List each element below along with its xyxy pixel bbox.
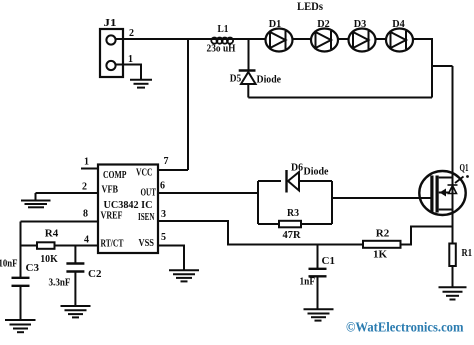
wire bottom loop rail bbox=[248, 97, 432, 99]
ground VFB bbox=[21, 193, 51, 207]
wire D6 branch left bbox=[258, 180, 281, 182]
resistor R1 bbox=[449, 244, 456, 267]
wire J1 pin1 to ground bbox=[115, 65, 141, 80]
svg-text:47R: 47R bbox=[283, 229, 302, 241]
svg-text:R2: R2 bbox=[376, 228, 390, 240]
svg-text:C1: C1 bbox=[322, 255, 335, 267]
snubber block right vertical wire bbox=[331, 181, 333, 224]
wire R2 to Q1 source node bbox=[401, 227, 453, 245]
svg-text:D3: D3 bbox=[354, 18, 367, 30]
capacitor C3 bbox=[12, 278, 30, 320]
wire R3 branch right bbox=[301, 223, 332, 225]
resistor R4 bbox=[37, 242, 55, 249]
ground R1 bbox=[439, 287, 467, 299]
inductor L1 bbox=[211, 38, 233, 44]
resistor R2 bbox=[363, 241, 401, 248]
svg-text:8: 8 bbox=[83, 209, 88, 220]
svg-text:3: 3 bbox=[161, 209, 166, 220]
wire D1 to D2 bbox=[293, 38, 312, 40]
wire pin5 VSS bbox=[158, 246, 184, 271]
wire pin1 COMP stub bbox=[81, 168, 98, 170]
svg-text:D4: D4 bbox=[392, 18, 405, 30]
wire gate bbox=[332, 197, 431, 199]
svg-text:3.3nF: 3.3nF bbox=[49, 276, 71, 288]
svg-text:R4: R4 bbox=[45, 228, 59, 240]
svg-text:Q1: Q1 bbox=[460, 163, 469, 174]
svg-text:1K: 1K bbox=[373, 249, 388, 261]
wire drain branch bbox=[432, 65, 453, 67]
wire Q1 source vertical bbox=[452, 210, 454, 244]
wire right loop vertical bbox=[413, 39, 432, 98]
LED D3 bbox=[349, 29, 376, 52]
wire J1 pin2 to L1 bbox=[115, 38, 212, 40]
wire pin8 VREF bbox=[21, 221, 99, 223]
LED D2 bbox=[311, 29, 338, 52]
svg-text:LEDs: LEDs bbox=[297, 1, 323, 13]
wire drain vertical bbox=[452, 66, 454, 178]
svg-text:D6: D6 bbox=[291, 162, 303, 174]
ground C1 bbox=[304, 309, 334, 320]
svg-text:10nF: 10nF bbox=[0, 259, 18, 270]
svg-text:7: 7 bbox=[164, 156, 169, 167]
capacitor C2 bbox=[66, 264, 84, 306]
svg-text:R3: R3 bbox=[287, 207, 299, 219]
svg-text:6: 6 bbox=[160, 181, 165, 192]
wire D6 branch right bbox=[299, 180, 332, 182]
Q1 dot bbox=[466, 175, 469, 178]
svg-text:Diode: Diode bbox=[304, 166, 329, 178]
svg-text:4: 4 bbox=[84, 234, 89, 245]
svg-text:Diode: Diode bbox=[257, 74, 282, 86]
svg-text:L1: L1 bbox=[218, 23, 229, 35]
svg-text:1: 1 bbox=[128, 54, 133, 65]
LED D1 bbox=[266, 29, 293, 52]
wire D2 to D3 bbox=[338, 38, 349, 40]
node A wire down to D5 bbox=[248, 39, 250, 71]
wire pin2 VFB bbox=[36, 192, 99, 194]
svg-text:UC3842 IC: UC3842 IC bbox=[104, 199, 153, 211]
svg-text:D2: D2 bbox=[317, 18, 330, 30]
wire D3 to D4 bbox=[376, 38, 387, 40]
svg-text:D1: D1 bbox=[269, 18, 282, 30]
svg-text:ISEN: ISEN bbox=[138, 212, 155, 223]
svg-text:1nF: 1nF bbox=[300, 276, 316, 288]
wire R3 branch left bbox=[258, 223, 279, 225]
LED D4 bbox=[386, 29, 413, 52]
wire pin4 RT/CT row bbox=[21, 245, 99, 247]
svg-text:J1: J1 bbox=[104, 17, 117, 29]
svg-text:VFB: VFB bbox=[102, 185, 119, 196]
svg-text:RT/CT: RT/CT bbox=[101, 239, 124, 250]
ground C3 bbox=[5, 320, 36, 332]
svg-text:23o uH: 23o uH bbox=[207, 43, 236, 55]
svg-text:R1: R1 bbox=[462, 247, 473, 259]
capacitor C1 bbox=[309, 245, 327, 310]
svg-text:C2: C2 bbox=[88, 268, 102, 280]
svg-text:1: 1 bbox=[84, 157, 89, 168]
wire pin6 OUT bbox=[158, 192, 258, 194]
svg-text:COMP: COMP bbox=[103, 170, 127, 181]
svg-text:2: 2 bbox=[129, 28, 134, 39]
resistor R3 bbox=[279, 221, 301, 228]
svg-text:VSS: VSS bbox=[139, 238, 155, 249]
svg-text:2: 2 bbox=[82, 182, 87, 193]
svg-text:D5: D5 bbox=[230, 73, 242, 85]
wire D5 to bottom rail bbox=[247, 84, 249, 98]
wire VCC drop bbox=[187, 39, 189, 170]
diode D5 bbox=[239, 71, 256, 85]
wire left rail bbox=[20, 222, 22, 278]
wire L1 to D1 bbox=[232, 38, 266, 40]
connector J1 bbox=[100, 29, 123, 77]
diode D6 bbox=[287, 170, 300, 193]
svg-text:C3: C3 bbox=[26, 262, 40, 274]
MOSFET Q1 bbox=[419, 171, 465, 215]
IC U1 UC3842 bbox=[98, 165, 158, 254]
svg-text:VREF: VREF bbox=[101, 211, 123, 222]
svg-text:VCC: VCC bbox=[136, 168, 153, 179]
svg-text:OUT: OUT bbox=[141, 188, 157, 199]
ground J1 bbox=[130, 80, 152, 88]
ground VSS bbox=[169, 270, 199, 281]
wire pin7 VCC bbox=[158, 169, 188, 171]
wire pin3 ISEN bbox=[158, 221, 363, 245]
ground C2 bbox=[61, 306, 91, 317]
svg-text:5: 5 bbox=[161, 232, 166, 243]
svg-text:10K: 10K bbox=[40, 253, 58, 265]
wire R1 to ground bbox=[452, 266, 454, 287]
wire C2 junction drop bbox=[74, 246, 76, 264]
snubber block left vertical wire bbox=[257, 181, 259, 224]
svg-text:©WatElectronics.com: ©WatElectronics.com bbox=[346, 320, 464, 335]
